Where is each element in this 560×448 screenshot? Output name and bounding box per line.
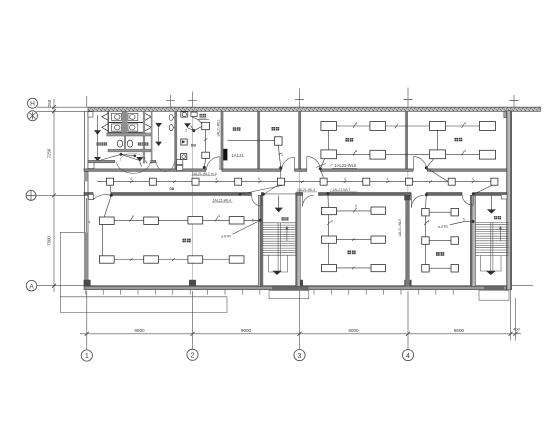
svg-text:4: 4 — [218, 214, 220, 218]
grid bubble 2 — [187, 349, 198, 360]
roomA fan symbol — [181, 112, 188, 117]
label 1AL21-WL5 tick — [316, 164, 332, 168]
svg-text:a-STR: a-STR — [438, 225, 448, 229]
junction dot door — [134, 155, 137, 158]
svg-text:9000: 9000 — [241, 328, 252, 333]
L2 door arc — [303, 195, 314, 206]
roomA vertical wire — [205, 130, 207, 153]
roomD label — [346, 138, 350, 142]
svg-text:1: 1 — [85, 353, 89, 360]
roomE label — [455, 138, 459, 142]
roomC wire down — [278, 145, 280, 166]
left wall lower solid segment — [84, 232, 88, 286]
upper interior wall roomC east — [298, 111, 301, 170]
grid bubble 1 — [81, 350, 92, 361]
corridor junction dot left — [110, 194, 113, 197]
toilet room label left — [97, 142, 100, 145]
roomA leader lines — [192, 117, 209, 124]
stair1 label — [282, 217, 285, 220]
bottom exterior wall band — [84, 286, 507, 294]
stair1 wire to triangle — [278, 196, 280, 208]
svg-text:4: 4 — [132, 215, 134, 219]
roomC box — [275, 137, 283, 145]
ROOMS — [88, 112, 501, 272]
svg-text:4: 4 — [216, 177, 218, 181]
grid extension lines above — [86, 96, 88, 107]
roomA junction dot — [192, 129, 195, 132]
roomD wires — [329, 126, 430, 155]
svg-text:4: 4 — [355, 204, 357, 208]
toilet stall row separator — [108, 122, 143, 124]
grid bubble 4 — [402, 350, 413, 361]
toilet east wall / urinal room west wall — [143, 111, 145, 163]
svg-text:5: 5 — [463, 218, 465, 222]
roomA box1 — [202, 122, 210, 129]
toilet double door arcs — [117, 162, 151, 173]
roomE door arc — [413, 157, 426, 170]
roomC door arc — [282, 157, 295, 170]
grid bubble mid — [26, 190, 36, 200]
stair1 up arrow small — [286, 227, 289, 241]
roomC door dot — [279, 166, 282, 169]
stair2 up arrow small — [499, 227, 502, 241]
svg-text:4: 4 — [472, 177, 474, 181]
stair2 direction triangle top — [487, 209, 496, 213]
stall door triangle left 1 — [102, 113, 108, 120]
L3 wire tick — [424, 222, 427, 225]
junction dot washroom — [120, 153, 123, 156]
stall door triangle right 2 — [145, 124, 151, 131]
shaft wall — [151, 111, 153, 163]
STRUCT — [60, 107, 540, 312]
stair2 top small box — [501, 194, 507, 199]
L2 label — [348, 251, 352, 255]
corridor south wall — [84, 193, 507, 196]
svg-text:4: 4 — [88, 220, 90, 224]
wire panel to roomC — [227, 139, 274, 141]
stair1 west wall — [258, 195, 263, 286]
WC fixture 1 — [112, 113, 122, 120]
svg-text:4: 4 — [428, 220, 430, 224]
roomA wall fixture 2 — [181, 154, 187, 160]
svg-text:4: 4 — [356, 149, 358, 153]
lamp triangle urinal N — [155, 123, 162, 128]
wire corridor to L1 — [110, 185, 111, 195]
left exterior wall — [85, 111, 88, 285]
grid bubble A — [26, 280, 37, 291]
L3 door dot — [425, 193, 428, 196]
grid line H horizontal — [37, 106, 541, 108]
L1 wire ticks — [130, 216, 219, 260]
wire last square to stair2 dot — [475, 185, 492, 194]
svg-text:9000: 9000 — [348, 328, 359, 333]
roomA wire to door dot — [204, 158, 205, 167]
roomC label — [272, 127, 276, 131]
upper interior wall grid4 — [405, 111, 408, 170]
stair2 wire to triangle — [490, 196, 492, 210]
TOILET — [88, 111, 183, 173]
L3 label — [436, 252, 440, 256]
L2 wires — [328, 194, 371, 268]
svg-text:a-STR: a-STR — [221, 235, 231, 239]
a-STR label 2 — [438, 218, 475, 230]
svg-text:8600: 8600 — [454, 328, 465, 333]
basin left — [117, 140, 122, 147]
basin right — [127, 140, 132, 147]
stair1 east wall — [296, 195, 301, 286]
svg-text:250: 250 — [47, 99, 52, 107]
stair2 label — [494, 216, 497, 219]
upper interior wall toilet east — [174, 111, 177, 170]
left dimension chain — [46, 99, 56, 292]
svg-text:1AL21-WL5: 1AL21-WL5 — [335, 163, 357, 168]
TEXTS — [170, 163, 402, 237]
WC fixture 2 — [112, 124, 122, 131]
L1 wires — [103, 195, 259, 259]
wire toilet bottom run — [98, 154, 142, 166]
lower-left door arc — [94, 195, 111, 200]
grid bubble 3 — [294, 350, 305, 361]
construction line grid3 corridor — [299, 170, 301, 195]
roomA wires to box — [187, 126, 201, 131]
L3 door arc — [412, 195, 424, 207]
roomD door arc — [307, 157, 321, 170]
WC fixture 3 — [128, 113, 138, 120]
panel 1AL21 black box — [223, 149, 227, 161]
svg-text:4: 4 — [344, 177, 346, 181]
roomA small box top — [191, 112, 197, 116]
L2 fixtures — [321, 207, 385, 272]
svg-text:5: 5 — [258, 177, 260, 181]
L3 fixtures — [422, 208, 459, 272]
svg-text:1AL21-WL4: 1AL21-WL4 — [213, 198, 232, 202]
stair2 entrance platform — [479, 287, 509, 301]
toilet room label right — [138, 142, 141, 145]
svg-text:3: 3 — [298, 353, 302, 360]
stall door triangle left 2 — [102, 124, 108, 131]
stair1 treads — [263, 223, 296, 272]
svg-text:2: 2 — [185, 129, 187, 133]
construction line grid2 — [192, 111, 194, 286]
left wall corridor block — [84, 171, 88, 182]
roomC wire tick and 2 — [278, 153, 283, 157]
roomE wires — [438, 126, 480, 155]
svg-text:DB: DB — [191, 144, 197, 148]
stall door triangle right 1 — [145, 113, 151, 120]
corridor wire count labels — [130, 177, 474, 181]
L1 wire labels — [132, 214, 254, 223]
L1 fixtures row2 — [99, 256, 244, 263]
toilet south wall segments — [88, 160, 156, 162]
bottom dimension line — [80, 327, 521, 336]
roomE fixtures — [429, 122, 495, 160]
svg-text:4: 4 — [464, 149, 466, 153]
toilet stall west wall — [107, 111, 109, 136]
construction line grid4 corridor — [407, 170, 409, 195]
svg-text:4: 4 — [331, 220, 333, 224]
roomA lamp triangle — [184, 123, 191, 127]
vestibule door arc — [156, 162, 174, 171]
upper interior wall roomB east — [257, 111, 260, 169]
grid line J horizontal — [37, 110, 91, 112]
top wall right end stub — [504, 111, 509, 118]
corridor junction dots mid — [239, 193, 242, 196]
washroom south wall — [108, 149, 151, 152]
stair1 direction triangle bottom — [272, 271, 281, 275]
stair1 entrance platform — [269, 286, 309, 298]
svg-text:1AL21-WL1: 1AL21-WL1 — [217, 119, 221, 137]
toilet stall row2 bottom — [108, 131, 143, 133]
stair2 direction triangle bottom — [486, 271, 496, 275]
urinal fixture 2 — [169, 125, 174, 131]
svg-text:A: A — [29, 283, 34, 290]
grid bubble J — [28, 111, 38, 121]
L3 wires — [426, 195, 452, 268]
svg-text:H: H — [30, 101, 35, 108]
stair2 treads — [475, 222, 508, 271]
toilet shelf wall — [107, 133, 151, 136]
svg-text:5: 5 — [252, 219, 254, 223]
apron outline left and bottom — [60, 232, 227, 312]
svg-text:4: 4 — [406, 353, 410, 360]
upper interior wall roomA east — [221, 111, 224, 170]
toilet center partition — [122, 111, 127, 136]
GRIDSYS — [26, 88, 541, 362]
corridor wire — [97, 181, 494, 183]
grid bubble H — [28, 98, 38, 108]
roomE wires from door — [426, 159, 448, 182]
urinal fixture 1 — [169, 115, 174, 121]
svg-text:9000: 9000 — [134, 328, 145, 333]
svg-text:| 1AL21-WL7: | 1AL21-WL7 — [331, 188, 351, 192]
lamp triangle toilet NW — [94, 130, 101, 135]
wire urinal vertical — [158, 128, 160, 142]
grid line mid horizontal — [36, 194, 85, 196]
svg-text:1AL21-WL3: 1AL21-WL3 — [297, 188, 315, 192]
roomD wire door to fixture — [320, 159, 324, 179]
roomA door arc — [207, 157, 220, 170]
right exterior wall hatched — [507, 111, 512, 290]
roomD fixtures — [321, 122, 386, 160]
svg-text:2: 2 — [191, 353, 195, 360]
lower-left room door2 arc — [251, 195, 261, 206]
basin partition — [124, 136, 126, 149]
svg-text:7500: 7500 — [46, 236, 51, 246]
bottom wall mullion ticks — [86, 290, 453, 295]
L2 door dot — [326, 192, 329, 195]
svg-text:4: 4 — [387, 177, 389, 181]
roomA label top — [200, 114, 203, 117]
svg-text:4: 4 — [464, 122, 466, 126]
svg-text:400: 400 — [513, 327, 520, 332]
stair2 top door dot — [472, 192, 475, 195]
svg-text:2: 2 — [281, 153, 283, 157]
roomA wire tick — [204, 139, 207, 141]
stair1 direction triangle top — [275, 208, 283, 213]
roomE door dot — [425, 166, 428, 169]
lower-left room door leaf — [88, 194, 93, 199]
roomD door dot — [319, 167, 322, 170]
roomA box2 — [202, 152, 210, 158]
svg-text:1AL21-WL6: 1AL21-WL6 — [398, 219, 402, 237]
corridor light squares — [107, 178, 498, 185]
a-STR label 1 — [221, 219, 262, 239]
lamp triangle urinal S — [155, 142, 162, 147]
stair2 west wall — [470, 195, 475, 286]
corridor wire ticks — [130, 180, 474, 183]
bottom wall columns at grids — [84, 280, 412, 287]
svg-text:DB: DB — [170, 187, 175, 191]
svg-text:4: 4 — [130, 177, 132, 181]
grid line A horizontal — [37, 285, 533, 287]
L1 room label — [183, 239, 187, 243]
L2 wire ticks — [327, 208, 356, 270]
lower interior wall grid4 — [404, 195, 410, 286]
roomA door dot — [203, 166, 206, 169]
roomB label — [233, 127, 237, 131]
svg-text:1AL21-WL2 n=4: 1AL21-WL2 n=4 — [192, 172, 217, 176]
lamp triangle toilet SW — [94, 157, 101, 162]
svg-text:4: 4 — [356, 122, 358, 126]
grid extension lines below — [86, 291, 88, 350]
left wall niche upper — [88, 112, 93, 118]
WC fixture 4 — [128, 124, 138, 131]
door jamb blocks at urinal entry — [177, 159, 183, 164]
wire square to roomC dot — [280, 168, 282, 178]
stair1 entry threshold line — [263, 193, 296, 195]
svg-text:1AL21: 1AL21 — [231, 153, 244, 158]
wire slash mark — [146, 161, 148, 164]
roomA wall fixture 1 — [181, 139, 187, 145]
corridor north wall — [84, 169, 507, 171]
top exterior wall hatched band — [88, 107, 541, 111]
lamp triangle toilet SE — [136, 157, 143, 162]
wire toilet west vertical — [97, 115, 99, 157]
svg-text:7250: 7250 — [46, 148, 51, 158]
stair2 door arc — [462, 195, 473, 205]
left wall niche lower — [88, 161, 94, 169]
L1 fixtures row1 — [99, 217, 244, 225]
